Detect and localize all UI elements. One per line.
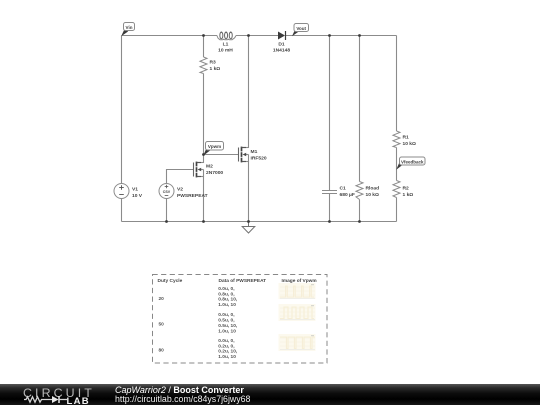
node Vpwm junction: R3 / M1 gate / M2 drain	[202, 153, 205, 156]
node Vout flag	[292, 24, 309, 37]
transistor M1	[239, 147, 267, 163]
node Vin flag	[121, 23, 134, 37]
junction: Vout rail to C1	[328, 34, 331, 37]
junction: C1 bottom on ground rail	[328, 220, 331, 223]
svg-text:LAB: LAB	[67, 396, 90, 405]
junction: M1 source / ground symbol on ground rail	[247, 220, 250, 223]
junction: V2 minus on ground rail	[165, 220, 168, 223]
wire V2 to M2 gate	[167, 170, 194, 184]
resistor Rload	[356, 182, 379, 200]
junction: M2 source on ground rail	[202, 220, 205, 223]
junction: Rload bottom on ground rail	[358, 220, 361, 223]
wire M2 drain	[197, 155, 204, 163]
wire M1 source	[242, 162, 249, 222]
wire R3 branch	[203, 36, 205, 155]
voltage source V1	[114, 184, 143, 200]
wire C1 branch	[329, 36, 331, 222]
wire Rload branch	[359, 36, 361, 222]
waveform image duty 20	[279, 283, 316, 299]
junction: R3 top on Vin rail	[202, 34, 205, 37]
wire top rail	[122, 35, 397, 37]
wire M2 source	[197, 177, 204, 222]
table: duty cycle data	[153, 275, 328, 364]
wire left rail	[121, 36, 123, 222]
footer title	[115, 385, 244, 395]
ground	[242, 222, 255, 234]
voltage source V2	[159, 184, 208, 200]
resistor R3	[200, 57, 220, 74]
diode D1	[273, 31, 290, 54]
transistor M2	[194, 162, 224, 178]
footer bar	[0, 384, 540, 405]
resistor R2	[393, 181, 413, 199]
wire M1 gate	[204, 154, 239, 156]
waveform image duty 50	[279, 304, 316, 321]
junction: L1 to M1 drain / D1 anode	[247, 34, 250, 37]
waveform image duty 80	[279, 334, 316, 351]
wire M1 drain	[242, 36, 249, 148]
capacitor C1	[322, 186, 355, 199]
node Vfeedback flag	[396, 157, 425, 170]
wire bottom rail	[122, 221, 397, 223]
node Vpwm flag	[203, 142, 223, 156]
resistor R1	[393, 131, 416, 148]
CircuitLab logo	[23, 386, 95, 400]
wire right rail	[396, 36, 398, 222]
wire V2 bottom	[166, 199, 168, 222]
footer url	[115, 394, 250, 404]
junction: Vout rail to Rload	[358, 34, 361, 37]
inductor L1	[217, 32, 236, 54]
